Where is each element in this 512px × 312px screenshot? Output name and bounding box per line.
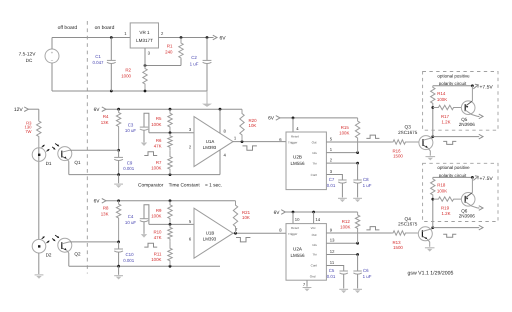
svg-text:U1A: U1A xyxy=(206,139,215,144)
svg-text:Q1: Q1 xyxy=(74,160,81,165)
wire output lower xyxy=(433,225,483,230)
svg-text:10K: 10K xyxy=(242,215,250,220)
transistor Q6 2N3906 PNP xyxy=(461,177,483,210)
pin 3 label xyxy=(189,127,192,132)
inverted pulse icon at output lower xyxy=(443,234,456,237)
svg-text:1500: 1500 xyxy=(393,245,403,250)
svg-text:13: 13 xyxy=(330,238,335,243)
resistor R17 1.2K xyxy=(433,105,462,124)
node junction R14/R17 xyxy=(431,106,434,109)
resistor R12 100K timing xyxy=(340,212,360,243)
capacitor C9 0.001 xyxy=(114,150,135,174)
svg-text:U2B: U2B xyxy=(293,155,302,160)
svg-text:Cont: Cont xyxy=(311,173,318,177)
node junction U2A pin10 xyxy=(292,211,295,214)
svg-text:13K: 13K xyxy=(101,120,109,125)
svg-text:100K: 100K xyxy=(151,257,161,262)
node junction R21 bottom xyxy=(234,232,237,235)
wire +7.5V feed upper xyxy=(433,85,473,87)
svg-text:R11: R11 xyxy=(154,252,162,257)
ground symbol Q4 emitter xyxy=(425,248,435,252)
pin 3 label VR1 xyxy=(148,51,151,56)
label Q1 xyxy=(74,160,81,165)
node junction C1 bottom xyxy=(110,90,113,93)
svg-text:2SC1675: 2SC1675 xyxy=(398,222,418,227)
wire U2B pin2 threshold xyxy=(326,162,357,164)
ground symbol upper rail xyxy=(114,175,123,188)
svg-text:0.001: 0.001 xyxy=(123,258,135,263)
6V output arrow xyxy=(213,35,226,41)
svg-text:10 uF: 10 uF xyxy=(125,220,137,225)
pin 1 label U2B xyxy=(330,147,333,152)
wire Q2 emitter to ground rail xyxy=(68,253,70,266)
inverted pulse icon at comparator output upper xyxy=(243,146,257,150)
node junction R9 top xyxy=(169,199,172,202)
svg-text:LM556: LM556 xyxy=(290,253,304,258)
resistor R7 100K xyxy=(151,150,172,174)
node junction R20 bottom xyxy=(241,140,244,143)
pin 4 label U1A xyxy=(224,153,227,158)
resistor R6 47K xyxy=(154,133,173,151)
svg-text:Out: Out xyxy=(312,141,317,145)
voltage source V1 7.5-12V DC xyxy=(19,49,59,63)
label Q5 2N3906 xyxy=(459,117,476,127)
pin 10 label U2A xyxy=(295,217,300,222)
svg-text:optional positive: optional positive xyxy=(437,73,470,78)
svg-text:2SC1675: 2SC1675 xyxy=(398,130,418,135)
wire VR1 pin2 to 6V output xyxy=(159,37,214,39)
transistor Q3 2SC1675 NPN xyxy=(419,136,433,156)
svg-text:11: 11 xyxy=(330,260,335,265)
svg-text:10K: 10K xyxy=(249,123,257,128)
wire U2A pin14 vcc stub xyxy=(313,212,315,224)
dashed box optional positive polarity circuit lower xyxy=(423,163,498,221)
node junction pin2/C8 xyxy=(356,162,359,165)
node junction R4 top xyxy=(117,108,120,111)
svg-text:7.5-12V: 7.5-12V xyxy=(19,52,37,58)
wire collector node vertical xyxy=(432,199,434,228)
node junction Q5 emitter xyxy=(471,84,474,87)
svg-text:R17: R17 xyxy=(441,114,450,119)
svg-text:0.01: 0.01 xyxy=(327,183,336,188)
svg-text:Trigger: Trigger xyxy=(288,232,297,236)
node junction R7 bottom xyxy=(169,173,172,176)
resistor R1 240 xyxy=(165,38,183,60)
node junction C1 top xyxy=(110,36,113,39)
capacitor C3 10uF xyxy=(125,113,149,146)
pin 1 label xyxy=(234,136,237,141)
resistor R13 1500 base xyxy=(392,231,418,250)
svg-text:R8: R8 xyxy=(103,206,109,211)
node junction C10 bottom xyxy=(117,265,120,268)
node junction Q3 collector output xyxy=(431,135,434,138)
pin 2 label VR1 xyxy=(161,31,164,36)
wire R1 bottom to VR1 pin3 xyxy=(145,59,181,66)
label Q3 2SC1675 xyxy=(398,125,418,135)
timer U2A LM556 xyxy=(286,224,326,281)
capacitor C2 1uF xyxy=(190,38,212,92)
phototransistor Q1 xyxy=(58,147,72,162)
svg-text:1 uF: 1 uF xyxy=(363,274,372,279)
inverted pulse icon at output upper xyxy=(443,141,456,144)
svg-text:LM393: LM393 xyxy=(203,145,217,150)
wire U2B pin3 control xyxy=(326,175,342,180)
ground symbol C7 xyxy=(338,198,347,202)
pin 14 label U2A xyxy=(315,217,320,222)
wire Q2 collector xyxy=(69,241,118,243)
wire +7.5V feed lower xyxy=(433,176,473,178)
svg-text:off board: off board xyxy=(58,25,78,31)
svg-text:100K: 100K xyxy=(339,131,349,136)
pin 4 label U2B xyxy=(296,126,299,131)
ground symbol Q3 emitter xyxy=(426,157,436,161)
svg-text:100K: 100K xyxy=(151,122,161,127)
svg-text:R1: R1 xyxy=(167,44,173,49)
resistor R20 10K xyxy=(240,109,257,141)
resistor R9 100K xyxy=(151,201,172,225)
svg-text:R6: R6 xyxy=(156,138,162,143)
svg-text:7W: 7W xyxy=(25,129,31,134)
svg-text:R18: R18 xyxy=(437,183,446,188)
wire Q1 collector xyxy=(69,149,118,151)
pin 12 label U2A xyxy=(330,249,335,254)
wire VR1 pin3 stub xyxy=(144,48,146,66)
capacitor C4 10uF xyxy=(125,205,149,238)
node junction R18/R19 xyxy=(431,198,434,201)
light arrows from D1 xyxy=(42,145,50,152)
resistor R2 1000 xyxy=(121,66,147,92)
wire op-amp output lower xyxy=(233,232,286,234)
node junction U2B pin4 xyxy=(292,117,295,120)
pin 8 label U1A xyxy=(224,128,227,133)
svg-text:1500: 1500 xyxy=(393,154,403,159)
pin 2 label U2B xyxy=(330,158,333,163)
svg-text:Q2: Q2 xyxy=(74,251,81,256)
resistor R10 47K xyxy=(153,224,172,242)
resistor R14 100K xyxy=(431,86,448,108)
svg-text:100K: 100K xyxy=(437,189,447,194)
resistor R4 13K xyxy=(101,109,121,150)
pin 6 label xyxy=(189,236,192,241)
svg-text:1 uF: 1 uF xyxy=(363,183,372,188)
ground symbol lower rail xyxy=(114,266,123,279)
resistor R11 100K xyxy=(151,242,172,266)
resistor R18 100K xyxy=(431,177,448,199)
label off board xyxy=(58,25,78,31)
svg-text:100K: 100K xyxy=(151,166,161,171)
label on board xyxy=(95,25,115,31)
wire U2A pin12 threshold xyxy=(326,254,357,256)
capacitor C1 0.047 xyxy=(93,38,116,92)
svg-text:Dis: Dis xyxy=(312,243,317,247)
light arrows from D2 xyxy=(42,236,50,243)
svg-text:optional positive: optional positive xyxy=(437,165,470,170)
svg-text:gsw V1.1 1/29/2005: gsw V1.1 1/29/2005 xyxy=(408,270,454,276)
svg-text:10: 10 xyxy=(295,217,300,222)
resistor R16 1500 base xyxy=(392,140,419,159)
svg-text:R14: R14 xyxy=(437,91,446,96)
svg-text:LM317T: LM317T xyxy=(136,38,153,43)
svg-text:47K: 47K xyxy=(154,143,162,148)
wire 12V to R3 xyxy=(38,109,40,120)
LED D1 xyxy=(32,148,46,162)
svg-text:Out: Out xyxy=(312,233,317,237)
svg-text:C5: C5 xyxy=(329,268,335,273)
ground rail upper xyxy=(69,174,220,176)
wire source bottom to ground rail xyxy=(51,63,53,91)
svg-text:R12: R12 xyxy=(342,219,351,224)
pulse waveform icon at inverting input upper xyxy=(144,152,157,156)
capacitor C6 1uF timing xyxy=(353,255,371,289)
pin 5 label xyxy=(189,219,192,224)
resistor R21 10K xyxy=(233,201,250,233)
node junction pin3/R2 xyxy=(144,64,147,67)
ground symbol C6 xyxy=(353,289,362,293)
svg-text:C4: C4 xyxy=(128,214,134,219)
resistor R3 130 7W xyxy=(25,120,42,148)
pulse icon at U2A output xyxy=(366,227,379,230)
pin 1 label VR1 xyxy=(124,31,127,36)
timer U2B LM556 xyxy=(286,132,326,190)
resistor R5 100K xyxy=(151,109,172,133)
label Q6 2N3906 xyxy=(459,209,476,219)
capacitor C5 0.01 xyxy=(327,268,348,288)
label Q4 2SC1675 xyxy=(398,216,418,226)
6V supply arrow for U2A xyxy=(274,210,358,216)
pulse icon at U2B output xyxy=(366,135,379,138)
pin 2 label xyxy=(189,145,192,150)
wire D2 to ground xyxy=(38,253,40,274)
wire U2B pin1 discharge xyxy=(326,152,357,154)
svg-text:C1: C1 xyxy=(95,54,101,59)
svg-text:0.001: 0.001 xyxy=(123,166,135,171)
pulse waveform icon at inverting input lower xyxy=(144,243,157,247)
svg-text:240: 240 xyxy=(165,50,173,55)
svg-text:0.01: 0.01 xyxy=(327,274,336,279)
ground symbol C5 xyxy=(339,289,348,293)
svg-text:U2A: U2A xyxy=(293,247,303,252)
svg-text:2N3906: 2N3906 xyxy=(459,122,476,127)
svg-text:1000: 1000 xyxy=(121,74,131,79)
svg-text:6V: 6V xyxy=(94,199,101,205)
wire U2A pin7 ground stub xyxy=(306,280,308,286)
pin 6 label U2B trigger xyxy=(279,137,282,142)
svg-text:VR 1: VR 1 xyxy=(139,30,150,35)
+7.5V arrow upper xyxy=(473,84,493,90)
pin 13 label U2A xyxy=(330,238,335,243)
svg-text:+7.5V: +7.5V xyxy=(480,176,494,182)
svg-text:C7: C7 xyxy=(329,177,335,182)
wire op-amp output upper xyxy=(233,141,286,143)
svg-text:6V: 6V xyxy=(274,210,281,216)
wire output upper xyxy=(433,134,483,139)
ground rail of regulator xyxy=(52,90,207,92)
svg-text:0.047: 0.047 xyxy=(93,60,105,65)
+7.5V arrow lower xyxy=(473,176,493,182)
svg-text:C3: C3 xyxy=(128,122,134,127)
transistor Q4 2SC1675 NPN xyxy=(418,227,432,247)
wire U1A pin8 supply stub xyxy=(219,109,221,133)
svg-text:R4: R4 xyxy=(103,114,109,119)
wire R3 to D1 to D2 xyxy=(38,148,40,240)
op-amp U1A LM393 xyxy=(194,117,233,167)
svg-text:DC: DC xyxy=(26,58,33,63)
svg-text:R19: R19 xyxy=(441,206,450,211)
node junction C9 bottom xyxy=(117,173,120,176)
wire non-inverting input lower xyxy=(149,223,194,225)
ground symbol D2 xyxy=(35,275,44,279)
pin 7 label xyxy=(235,227,238,232)
wire U1A pin4 ground stub xyxy=(219,150,221,175)
node junction U1A pin8 xyxy=(219,108,222,111)
label D2 xyxy=(46,252,52,257)
wire Q1 emitter to ground rail xyxy=(68,161,70,174)
light arrows into Q2 xyxy=(52,235,59,241)
svg-text:13K: 13K xyxy=(101,211,109,216)
svg-text:C9: C9 xyxy=(127,161,133,166)
node junction pin13/R12 xyxy=(356,242,359,245)
svg-text:R5: R5 xyxy=(156,116,162,121)
svg-text:R2: R2 xyxy=(125,68,131,73)
capacitor C8 1uF timing xyxy=(353,163,371,197)
node junction R5 top xyxy=(169,108,172,111)
svg-text:6V: 6V xyxy=(219,36,226,42)
node junction Q6 emitter xyxy=(471,176,474,179)
wire collector node vertical xyxy=(432,108,434,137)
svg-text:Gnd: Gnd xyxy=(310,275,316,279)
dashed box optional positive polarity circuit upper xyxy=(423,72,498,131)
svg-text:Trigger: Trigger xyxy=(288,140,297,144)
ground arrow of regulator rail xyxy=(202,91,212,107)
svg-text:100K: 100K xyxy=(437,97,447,102)
light arrows into Q1 xyxy=(52,144,59,150)
svg-text:1.2K: 1.2K xyxy=(441,119,450,124)
node junction pin1/R15 xyxy=(356,151,359,154)
svg-text:−: − xyxy=(51,58,54,63)
svg-text:R15: R15 xyxy=(341,125,350,130)
wire non-inverting input upper xyxy=(149,132,194,134)
node 6V feed upper xyxy=(94,107,242,113)
wire U2A pin13 discharge xyxy=(326,242,357,244)
node junction Q4 collector output xyxy=(431,226,434,229)
svg-text:on board: on board xyxy=(95,25,115,31)
label Q2 xyxy=(74,251,81,256)
title text gsw V1.1 xyxy=(408,270,454,276)
svg-text:100K: 100K xyxy=(340,224,350,229)
pin 3 label U2B xyxy=(330,169,333,174)
svg-text:+7.5V: +7.5V xyxy=(480,84,494,90)
svg-text:6V: 6V xyxy=(94,107,101,113)
dashed off-board/on-board boundary xyxy=(86,21,88,274)
svg-text:R10: R10 xyxy=(153,229,162,234)
node junction R11 bottom xyxy=(169,265,172,268)
LED D2 xyxy=(32,239,46,253)
svg-text:Comparator Time Constant: Comparator Time Constant = 1 sec. xyxy=(138,182,222,188)
6V supply arrow for U2B xyxy=(268,116,358,122)
node junction R2 bottom xyxy=(144,90,147,93)
node junction R5/R6 xyxy=(169,131,172,134)
12V input arrow xyxy=(14,107,39,113)
pin 11 label U2A xyxy=(330,260,335,265)
node junction collector/R8 xyxy=(117,241,120,244)
node junction collector/R4 xyxy=(117,149,120,152)
node junction U2A pin14 xyxy=(312,211,315,214)
node junction R1 top xyxy=(180,36,183,39)
wire source top to top rail xyxy=(51,38,53,50)
svg-text:10 uF: 10 uF xyxy=(125,128,137,133)
pin 9 label U2A xyxy=(330,227,333,232)
pin 5 label U2B xyxy=(330,137,333,142)
svg-text:47K: 47K xyxy=(154,235,162,240)
wire U2A pin11 control xyxy=(326,266,343,271)
pin 7 label U2A xyxy=(303,282,306,287)
svg-text:Reset: Reset xyxy=(291,226,299,230)
svg-text:Thr: Thr xyxy=(312,253,317,257)
svg-text:C6: C6 xyxy=(363,268,369,273)
svg-text:LM556: LM556 xyxy=(290,161,304,166)
svg-text:Reset: Reset xyxy=(291,135,299,139)
svg-text:Vcc: Vcc xyxy=(311,226,317,230)
transistor Q5 2N3906 PNP xyxy=(461,86,483,119)
phototransistor Q2 xyxy=(58,238,72,253)
svg-text:D1: D1 xyxy=(46,161,52,166)
svg-text:2N3906: 2N3906 xyxy=(459,214,476,219)
inverted pulse icon at comparator output lower xyxy=(236,238,250,242)
svg-text:R13: R13 xyxy=(392,240,401,245)
pin 8 label U2A trigger xyxy=(279,228,282,233)
wire U2B pin5 out to R16 xyxy=(326,141,391,143)
svg-text:R7: R7 xyxy=(156,160,162,165)
resistor R15 100K timing xyxy=(339,118,360,153)
svg-text:1.2K: 1.2K xyxy=(441,211,450,216)
svg-text:R16: R16 xyxy=(392,148,401,153)
svg-text:C8: C8 xyxy=(363,177,369,182)
node junction C2 top xyxy=(206,36,209,39)
svg-text:C10: C10 xyxy=(125,252,134,257)
wire U2A pin9 out to R13 xyxy=(326,232,391,234)
svg-text:Dis: Dis xyxy=(312,151,317,155)
ground rail lower xyxy=(69,265,220,267)
svg-text:100K: 100K xyxy=(151,213,161,218)
resistor R19 1.2K xyxy=(433,197,462,216)
wire U2B pin4 reset stub xyxy=(292,118,294,132)
svg-text:R9: R9 xyxy=(156,208,162,213)
svg-text:1 uF: 1 uF xyxy=(190,62,199,67)
svg-text:12V: 12V xyxy=(14,107,24,113)
svg-text:12: 12 xyxy=(330,249,335,254)
wire U2A pin10 reset stub xyxy=(292,212,294,224)
ground symbol pin7 xyxy=(303,288,312,292)
node 6V feed lower xyxy=(94,199,236,205)
node junction R9/R10 xyxy=(169,223,172,226)
capacitor C10 0.001 xyxy=(114,242,135,266)
label Comparator Time Constant xyxy=(138,182,222,188)
svg-text:Thr: Thr xyxy=(312,162,317,166)
regulator VR1 LM317T xyxy=(130,23,158,48)
op-amp U1B LM393 xyxy=(194,208,233,258)
svg-text:Cont: Cont xyxy=(311,263,318,267)
svg-text:D2: D2 xyxy=(46,252,52,257)
svg-text:6V: 6V xyxy=(268,116,275,122)
resistor R8 13K xyxy=(101,201,121,242)
ground symbol C8 xyxy=(353,198,362,202)
svg-text:U1B: U1B xyxy=(206,231,215,236)
svg-text:C2: C2 xyxy=(191,55,197,60)
wire top rail to VR1 pin1 xyxy=(52,37,130,39)
svg-text:LM393: LM393 xyxy=(203,237,217,242)
capacitor C7 0.01 xyxy=(327,177,347,197)
label D1 xyxy=(46,161,52,166)
